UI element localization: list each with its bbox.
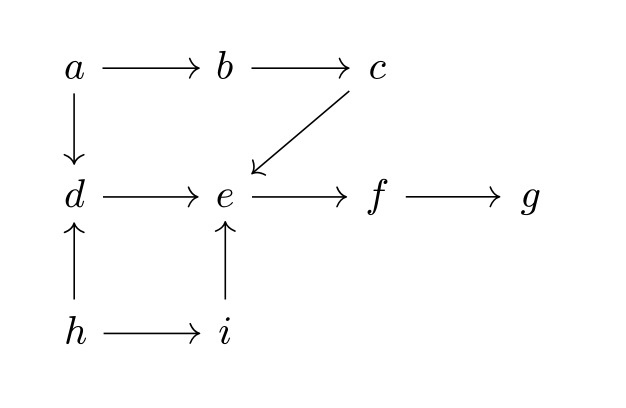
arrow a->d [64, 93, 83, 164]
node g [521, 189, 539, 215]
node i [219, 317, 230, 344]
node e [218, 189, 233, 207]
arrow i->e [216, 222, 235, 300]
node d [66, 179, 85, 207]
node f [368, 179, 388, 215]
arrow h->i [104, 324, 200, 343]
arrow h->d [65, 223, 84, 299]
arrow b->c [252, 58, 349, 77]
node b [218, 51, 233, 79]
arrow c->e [246, 91, 350, 181]
node a [65, 61, 84, 79]
node h [66, 316, 86, 344]
arrow e->f [252, 187, 346, 206]
arrow a->b [103, 58, 200, 77]
arrow f->g [406, 187, 500, 206]
node c [370, 61, 386, 79]
arrow d->e [103, 187, 198, 206]
